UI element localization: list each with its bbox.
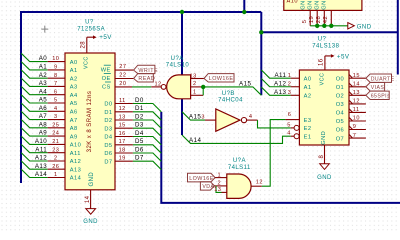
svg-text:1: 1 <box>193 90 197 96</box>
svg-text:A13: A13 <box>70 167 81 173</box>
pin 24 (A9) of U1 with wire and bus entry <box>21 128 48 136</box>
svg-text:O0: O0 <box>336 76 345 82</box>
junction bus x=182 <box>180 10 184 14</box>
svg-text:D1: D1 <box>104 110 112 116</box>
svg-text:15: 15 <box>119 123 126 129</box>
power +5V symbol at U1 pin 28 <box>87 37 93 53</box>
svg-text:GND: GND <box>89 172 95 187</box>
pin 25 (A8) of U1 with wire and bus entry <box>21 120 48 128</box>
output bubble of U3 <box>241 118 246 123</box>
svg-text:71256SA: 71256SA <box>77 27 105 33</box>
svg-text:LOW16E: LOW16E <box>209 76 234 82</box>
svg-text:17: 17 <box>119 139 126 145</box>
hierarchical label LOW16E bottom <box>188 173 216 182</box>
svg-text:A7: A7 <box>39 113 48 120</box>
svg-text:A15: A15 <box>189 114 201 121</box>
bus stub from top edge <box>243 0 245 12</box>
svg-text:A14: A14 <box>189 137 201 144</box>
svg-text:26: 26 <box>52 164 59 170</box>
svg-text:3: 3 <box>288 90 292 96</box>
svg-text:A5: A5 <box>39 97 48 104</box>
svg-text:19: 19 <box>309 16 315 23</box>
svg-text:A10: A10 <box>287 0 298 4</box>
svg-text:D0: D0 <box>135 97 144 104</box>
power +5V at U5 pin 16 <box>325 56 331 70</box>
svg-text:A4: A4 <box>70 93 78 99</box>
svg-text:D7: D7 <box>135 155 144 162</box>
pin 23 (A11) of U1 with wire and bus entry <box>21 144 48 152</box>
IC U6 partial chip top-right <box>284 0 362 10</box>
svg-text:74HC04: 74HC04 <box>218 98 243 104</box>
svg-text:D3: D3 <box>104 126 112 132</box>
svg-text:2: 2 <box>288 82 292 88</box>
junction bus x=244 <box>242 10 246 14</box>
pin 11 (O4) of U5 inverted output <box>349 109 366 113</box>
pin 9 (A1) of U1 with wire and bus entry <box>21 62 48 70</box>
svg-text:A3: A3 <box>70 85 78 91</box>
and gate U4 74LS11 body <box>227 174 251 198</box>
pin 4 E1 of U5 inverted with wire from A14 <box>291 135 294 137</box>
svg-text:5: 5 <box>287 123 291 129</box>
svg-text:A4: A4 <box>39 88 48 95</box>
pin 13 (D2) of U1 with wire and bus entry <box>115 119 133 121</box>
svg-text:E1: E1 <box>304 134 312 140</box>
svg-text:A9: A9 <box>39 130 48 137</box>
svg-text:32K x 8 SRAM 12ns: 32K x 8 SRAM 12ns <box>87 91 93 153</box>
pin 3 (A2) of U5 with wire and bus entry <box>261 87 290 95</box>
decoder U5 74LS138 body <box>299 70 349 145</box>
pin 2 of U4 <box>215 185 227 187</box>
sram U1 71256SA body <box>65 53 115 190</box>
pin 1 of U4 <box>215 177 227 179</box>
ground symbol below U1 <box>86 209 96 215</box>
hierarchical label WRITE <box>134 65 155 73</box>
pin 4 output of U3 with wire to U5 E2 <box>247 119 258 121</box>
svg-text:12: 12 <box>154 81 161 87</box>
svg-text:7: 7 <box>54 81 58 87</box>
svg-text:4: 4 <box>54 106 58 112</box>
wire A14 from bus to U5 E1 <box>182 135 291 143</box>
svg-text:U?: U? <box>318 37 327 43</box>
svg-text:GND: GND <box>300 0 306 10</box>
pin 10 (A0) of U1 with wire and bus entry <box>21 53 48 61</box>
svg-text:24: 24 <box>52 131 59 137</box>
data bus L-shape <box>161 112 400 203</box>
pin 18 (D6) of U1 with wire and bus entry <box>115 152 133 154</box>
svg-text:GND: GND <box>321 131 327 145</box>
svg-text:GND: GND <box>317 175 332 181</box>
svg-text:+5V: +5V <box>337 53 350 60</box>
svg-text:A12: A12 <box>70 159 81 165</box>
svg-text:6: 6 <box>288 112 292 118</box>
pin 8 (A2) of U1 with wire and bus entry <box>21 70 48 78</box>
svg-text:O2: O2 <box>336 94 345 100</box>
svg-text:A6: A6 <box>70 110 78 116</box>
hierarchical label READ <box>134 74 154 82</box>
bus horizontal y=31 <box>261 31 398 33</box>
svg-text:D0: D0 <box>104 102 112 108</box>
svg-text:A11: A11 <box>35 146 47 153</box>
pin 1 (A0) of U5 with wire and bus entry <box>261 70 290 78</box>
svg-text:A8: A8 <box>39 121 48 128</box>
pin 14 (O1) of U5 inverted output <box>349 83 366 87</box>
svg-text:27: 27 <box>119 64 126 70</box>
svg-text:A7: A7 <box>70 118 78 124</box>
pin 7 (A3) of U1 with wire and bus entry <box>21 78 48 86</box>
pin 20 CS of U1 with wire to gate <box>115 86 132 88</box>
svg-text:28: 28 <box>81 41 87 49</box>
svg-text:D7: D7 <box>104 159 112 165</box>
svg-text:A12: A12 <box>274 81 286 88</box>
pin 1 (A14) of U1 with wire and bus entry <box>21 169 48 177</box>
svg-text:5: 5 <box>302 19 308 23</box>
svg-text:74LS10: 74LS10 <box>166 62 190 68</box>
svg-text:14: 14 <box>85 195 91 203</box>
pin 27 WE of U1 <box>115 69 133 71</box>
svg-text:A11: A11 <box>274 72 286 79</box>
pin 8 GND of U5 <box>324 145 326 164</box>
svg-text:16: 16 <box>119 131 126 137</box>
svg-text:O3: O3 <box>336 102 345 108</box>
svg-text:O6: O6 <box>336 128 345 134</box>
svg-text:GND: GND <box>321 0 327 10</box>
svg-text:A2: A2 <box>70 76 78 82</box>
svg-text:2: 2 <box>54 156 58 162</box>
svg-text:A8: A8 <box>70 126 78 132</box>
svg-text:E2: E2 <box>304 126 312 132</box>
pin 13 of U2 <box>191 78 204 80</box>
pin 17 (D5) of U1 with wire and bus entry <box>115 144 133 146</box>
svg-text:VDA: VDA <box>202 184 214 190</box>
svg-text:2: 2 <box>193 81 197 87</box>
svg-text:10: 10 <box>353 116 360 122</box>
hierarchical label VDA <box>200 182 214 190</box>
junction on U6 gnd wire <box>315 24 319 28</box>
svg-text:WE: WE <box>101 68 111 74</box>
svg-text:E3: E3 <box>304 118 312 124</box>
output bubble of U2 <box>161 85 166 90</box>
junction at U2 pin 2 <box>201 85 205 89</box>
svg-text:D2: D2 <box>104 118 112 124</box>
junction bus x=261 y=31 <box>259 30 263 34</box>
hierarchical label LOW16E top <box>204 74 234 82</box>
svg-text:D2: D2 <box>135 113 144 120</box>
svg-text:WRITE: WRITE <box>138 68 158 74</box>
svg-text:8: 8 <box>54 73 58 79</box>
pin 2 (A12) of U1 with wire and bus entry <box>21 153 48 161</box>
svg-text:4: 4 <box>287 130 291 136</box>
pin 13 of U4 with tie wire <box>222 191 227 193</box>
pin 11 (D0) of U1 with wire and bus entry <box>115 103 133 105</box>
svg-text:25: 25 <box>52 122 59 128</box>
pin 14 GND of U1 <box>90 190 92 209</box>
svg-text:GND: GND <box>314 0 320 10</box>
svg-text:D4: D4 <box>104 135 112 141</box>
bus right vertical x=261 <box>260 12 262 95</box>
pin 3 input of U3 <box>205 119 216 121</box>
pin 3 (A7) of U1 with wire and bus entry <box>21 111 48 119</box>
svg-text:74LS138: 74LS138 <box>312 43 339 49</box>
pin 12 (D1) of U1 with wire and bus entry <box>115 111 133 113</box>
svg-text:OE: OE <box>102 76 111 82</box>
pin 13 (O2) of U5 inverted output <box>349 92 366 96</box>
svg-text:A10: A10 <box>35 138 47 145</box>
pin 15 (D3) of U1 with wire and bus entry <box>115 127 133 129</box>
svg-text:VCC: VCC <box>84 56 90 69</box>
svg-text:D5: D5 <box>104 143 112 149</box>
svg-text:A0: A0 <box>39 55 48 62</box>
svg-text:6: 6 <box>54 89 58 95</box>
svg-text:CS: CS <box>102 84 111 90</box>
svg-text:VCC: VCC <box>320 73 326 86</box>
hierarchical label DUARTE <box>366 74 392 82</box>
svg-text:13: 13 <box>214 187 221 193</box>
pin 2 (A1) of U5 with wire and bus entry <box>261 79 290 87</box>
pin 6 (A4) of U1 with wire and bus entry <box>21 86 48 94</box>
svg-text:A1: A1 <box>39 64 48 71</box>
svg-text:D3: D3 <box>135 122 144 129</box>
svg-text:A1: A1 <box>304 85 312 91</box>
svg-text:READ: READ <box>138 76 155 82</box>
pin 16 (D4) of U1 with wire and bus entry <box>115 136 133 138</box>
pin 26 (A13) of U1 with wire and bus entry <box>21 161 48 169</box>
svg-text:11: 11 <box>353 107 360 113</box>
bus far-right vertical <box>397 0 399 75</box>
svg-text:D6: D6 <box>135 146 144 153</box>
svg-text:VIAS: VIAS <box>371 85 385 91</box>
pin 15 (O0) of U5 inverted output <box>349 74 366 78</box>
svg-text:D5: D5 <box>135 138 144 145</box>
svg-text:A6: A6 <box>39 105 48 112</box>
svg-text:U?B: U?B <box>222 91 235 97</box>
pin 10 (O5) of U5 inverted output <box>349 117 366 121</box>
sheet origin crosshair marker <box>41 26 48 33</box>
svg-text:12: 12 <box>256 180 263 186</box>
svg-text:U?: U? <box>85 20 94 26</box>
svg-text:7: 7 <box>353 133 357 139</box>
svg-text:1: 1 <box>54 172 58 178</box>
pin 19 (D7) of U1 with wire and bus entry <box>115 160 133 162</box>
svg-text:U?A: U?A <box>233 158 246 164</box>
pin 9 (O6) of U5 inverted output <box>349 126 366 130</box>
svg-text:3: 3 <box>201 115 205 121</box>
svg-text:4: 4 <box>249 114 253 120</box>
svg-text:13: 13 <box>190 73 197 79</box>
svg-text:GND: GND <box>83 219 98 225</box>
pin 12 output of U4 with wire to U5 E3 <box>251 185 262 187</box>
bus top horizontal <box>21 11 261 13</box>
svg-text:23: 23 <box>52 147 59 153</box>
svg-text:11: 11 <box>119 98 126 104</box>
junction on U6 gnd wire <box>329 24 333 28</box>
nand gate U2 74LS10 body <box>167 75 191 99</box>
svg-text:A13: A13 <box>274 89 286 96</box>
svg-text:74LS11: 74LS11 <box>228 165 251 171</box>
pin 21 (A10) of U1 with wire and bus entry <box>21 136 48 144</box>
hierarchical label 65SPIs <box>366 91 389 99</box>
svg-text:A2: A2 <box>39 72 48 79</box>
junction on U6 gnd wire <box>322 24 326 28</box>
svg-text:O1: O1 <box>336 85 345 91</box>
svg-text:A11: A11 <box>70 151 81 157</box>
svg-text:D4: D4 <box>135 130 144 137</box>
svg-text:D6: D6 <box>104 151 112 157</box>
svg-text:14: 14 <box>353 82 360 88</box>
hierarchical label VIAS <box>366 83 385 91</box>
wire gnd common of U6 <box>310 25 348 27</box>
pin 1 of U2 with tie wire <box>191 94 203 96</box>
svg-text:15: 15 <box>353 73 360 79</box>
svg-text:A3: A3 <box>39 80 48 87</box>
svg-text:1: 1 <box>288 73 292 79</box>
svg-text:65SPIs: 65SPIs <box>371 93 390 99</box>
pin 7 (O7) of U5 inverted output <box>349 134 366 138</box>
svg-text:U?A: U?A <box>171 56 184 62</box>
svg-text:A0: A0 <box>304 76 312 82</box>
svg-text:+5V: +5V <box>99 34 112 41</box>
svg-text:3: 3 <box>54 114 58 120</box>
svg-text:12: 12 <box>119 106 126 112</box>
svg-text:13: 13 <box>119 114 126 120</box>
svg-text:GND: GND <box>307 0 313 10</box>
svg-text:A15: A15 <box>239 81 251 88</box>
svg-text:2: 2 <box>217 181 221 187</box>
svg-text:9: 9 <box>54 65 58 71</box>
wire A15 from bus to U3 input <box>182 112 205 120</box>
svg-text:13: 13 <box>353 90 360 96</box>
pin 4 (A6) of U1 with wire and bus entry <box>21 103 48 111</box>
svg-text:20: 20 <box>119 81 126 87</box>
svg-text:DUARTE: DUARTE <box>371 76 395 82</box>
svg-text:19: 19 <box>119 156 126 162</box>
svg-text:A12: A12 <box>35 155 47 162</box>
svg-text:16: 16 <box>318 58 324 66</box>
svg-text:5: 5 <box>54 98 58 104</box>
ground symbol below U5 <box>320 164 330 170</box>
pin 5 E2 of U5 inverted <box>291 127 294 129</box>
svg-text:42: 42 <box>323 16 329 23</box>
svg-text:O5: O5 <box>336 119 345 125</box>
svg-text:A9: A9 <box>70 134 78 140</box>
bus vertical x=182 <box>181 12 183 135</box>
svg-text:GND: GND <box>357 24 372 30</box>
svg-text:A1: A1 <box>70 68 78 74</box>
bus left vertical <box>20 11 22 183</box>
svg-text:9: 9 <box>353 124 357 130</box>
svg-text:D1: D1 <box>135 105 144 112</box>
svg-text:A0: A0 <box>70 60 78 66</box>
svg-text:O4: O4 <box>336 111 345 117</box>
svg-text:O7: O7 <box>336 136 345 142</box>
svg-text:LOW16E: LOW16E <box>189 176 214 182</box>
pin 5 (A5) of U1 with wire and bus entry <box>21 95 48 103</box>
svg-text:1: 1 <box>217 172 221 178</box>
svg-text:28: 28 <box>316 15 322 23</box>
svg-text:21: 21 <box>52 139 59 145</box>
svg-text:A5: A5 <box>70 101 78 107</box>
svg-text:A10: A10 <box>70 143 81 149</box>
svg-text:18: 18 <box>119 147 126 153</box>
svg-text:22: 22 <box>119 72 126 78</box>
svg-text:A14: A14 <box>35 171 47 178</box>
svg-text:A14: A14 <box>70 176 81 182</box>
ground symbol right-facing at U6 <box>348 23 355 29</box>
svg-text:8: 8 <box>319 155 325 159</box>
svg-text:A13: A13 <box>35 163 47 170</box>
svg-text:10: 10 <box>52 56 59 62</box>
svg-text:A2: A2 <box>304 94 312 100</box>
pin 2 of U2 with wire A15 to bus <box>191 86 203 88</box>
inverter U3 74HC04 body <box>216 109 240 131</box>
pin 12 (O3) of U5 inverted output <box>349 100 366 104</box>
svg-text:12: 12 <box>353 99 360 105</box>
pin 6 E3 of U5 <box>285 119 299 121</box>
pin 22 OE of U1 <box>115 78 133 80</box>
